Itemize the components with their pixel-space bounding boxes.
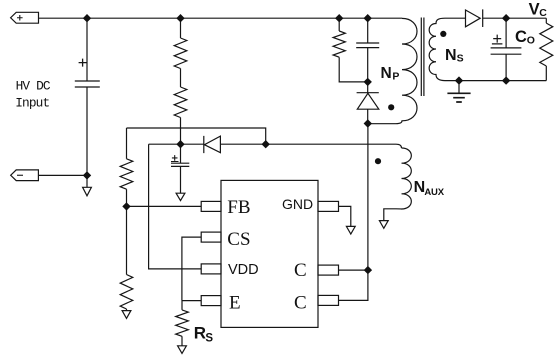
capacitor C-snubber xyxy=(356,18,379,82)
wire divider middle xyxy=(126,189,128,274)
resistor R-startup-1 xyxy=(174,18,187,68)
node junction: rail/snubC xyxy=(364,14,372,22)
capacitor C-vdd xyxy=(171,144,189,193)
node junction: drain node xyxy=(364,119,372,127)
svg-text:R: R xyxy=(194,324,206,343)
node junction: FB tap xyxy=(122,202,130,210)
svg-text:E: E xyxy=(229,293,241,314)
svg-text:GND: GND xyxy=(282,196,313,212)
wire startup to VDD node xyxy=(180,118,182,145)
wire C1 pin to drain xyxy=(339,269,368,271)
svg-text:N: N xyxy=(445,47,457,64)
resistor R-snubber xyxy=(333,18,345,57)
pin CS box xyxy=(201,232,221,242)
node junction: - terminal xyxy=(83,171,91,179)
node junction: rail/Cin xyxy=(83,14,91,22)
+/- label C-vdd xyxy=(171,155,179,161)
node junction: secondary gnd xyxy=(455,76,463,84)
svg-text:C: C xyxy=(515,28,527,46)
polarity dot NP xyxy=(388,104,394,110)
resistor R-fb-upper xyxy=(120,159,133,189)
pin C1 box xyxy=(318,265,339,275)
svg-text:P: P xyxy=(392,71,399,83)
wire diode anode to NAUX xyxy=(220,144,401,148)
terminal + (HV DC input positive) xyxy=(11,12,39,23)
pin E box xyxy=(201,296,221,306)
svg-text:C: C xyxy=(294,260,307,281)
svg-text:CS: CS xyxy=(227,229,250,250)
ground arrow (GND pin) xyxy=(346,226,355,234)
wire clamp to drain node xyxy=(367,109,369,123)
resistor R-load xyxy=(540,18,553,80)
diode D1 (VDD rectifier, cathode left) xyxy=(204,136,221,153)
svg-text:HV DC: HV DC xyxy=(16,79,51,94)
pin GND box xyxy=(318,201,339,211)
terminal - (HV DC input negative) xyxy=(11,170,39,181)
capacitor Co output xyxy=(491,18,522,80)
pin FB box xyxy=(201,201,221,211)
wire bottom-left from - terminal xyxy=(38,174,87,176)
svg-text:C: C xyxy=(539,7,547,19)
wire E xyxy=(182,300,201,302)
svg-text:S: S xyxy=(457,53,464,65)
ground arrow (C-vdd) xyxy=(176,193,185,200)
node junction: snubber node xyxy=(364,78,372,86)
polarity dot NS xyxy=(440,31,446,37)
wire FB tap xyxy=(127,205,202,207)
wire CS xyxy=(182,237,201,301)
node junction: rail/snubR xyxy=(335,14,343,22)
svg-text:FB: FB xyxy=(227,197,250,218)
svg-text:VDD: VDD xyxy=(228,262,259,278)
wire FB divider top (to diode anode riser) xyxy=(127,128,266,144)
node junction: C pins xyxy=(364,266,372,274)
wire C2 pin riser xyxy=(339,270,368,300)
wire FB divider column xyxy=(126,128,128,159)
ground arrow (primary return) xyxy=(83,175,92,195)
wire drain vertical xyxy=(367,124,369,271)
svg-text:V: V xyxy=(529,0,540,18)
polarity dot NAUX xyxy=(375,158,381,164)
+ label Co xyxy=(492,35,503,44)
resistor R-fb-lower xyxy=(120,275,133,310)
diode D3 output (pointing right) xyxy=(466,9,483,27)
node junction: rail/startup xyxy=(176,14,184,22)
node junction: anode riser xyxy=(262,140,270,148)
ground arrow (FB divider) xyxy=(122,309,131,318)
node junction: Co bottom xyxy=(502,76,510,84)
svg-text:O: O xyxy=(527,35,535,47)
pin C2 box xyxy=(318,295,339,305)
svg-text:C: C xyxy=(294,292,307,313)
diode D2 clamp (cathode up) xyxy=(357,82,379,109)
capacitor Cin (input bulk) xyxy=(75,18,100,175)
wire between startup resistors xyxy=(180,69,182,88)
resistor Rs xyxy=(176,301,189,337)
ground arrow (NAUX) xyxy=(379,221,388,229)
wire VDD riser xyxy=(149,144,202,269)
+ label Cin xyxy=(79,59,87,67)
transformer secondary NS winding xyxy=(429,18,445,80)
node junction: output diode/Co xyxy=(502,14,510,22)
wire VDD node horizontal xyxy=(149,143,204,145)
transformer primary NP winding xyxy=(368,18,417,123)
transformer core xyxy=(421,18,424,97)
pin VDD box xyxy=(201,264,221,274)
earth ground (secondary) xyxy=(458,81,460,94)
wire secondary bottom xyxy=(445,80,546,82)
transformer auxiliary NAUX winding xyxy=(384,148,412,221)
resistor R-startup-2 xyxy=(174,87,187,118)
op-amp U1 controller IC body xyxy=(221,180,318,327)
wire top rail xyxy=(39,17,403,19)
svg-text:S: S xyxy=(205,333,213,345)
wire GND pin xyxy=(339,206,351,226)
wire secondary top xyxy=(445,17,466,19)
svg-text:Input: Input xyxy=(15,95,49,110)
svg-text:N: N xyxy=(381,65,392,82)
node junction: VDD node xyxy=(176,140,184,148)
wire snubber R bottom xyxy=(339,57,368,82)
ground arrow (Rs) xyxy=(178,336,187,353)
wire diode to output xyxy=(483,17,547,19)
svg-text:AUX: AUX xyxy=(424,187,444,198)
